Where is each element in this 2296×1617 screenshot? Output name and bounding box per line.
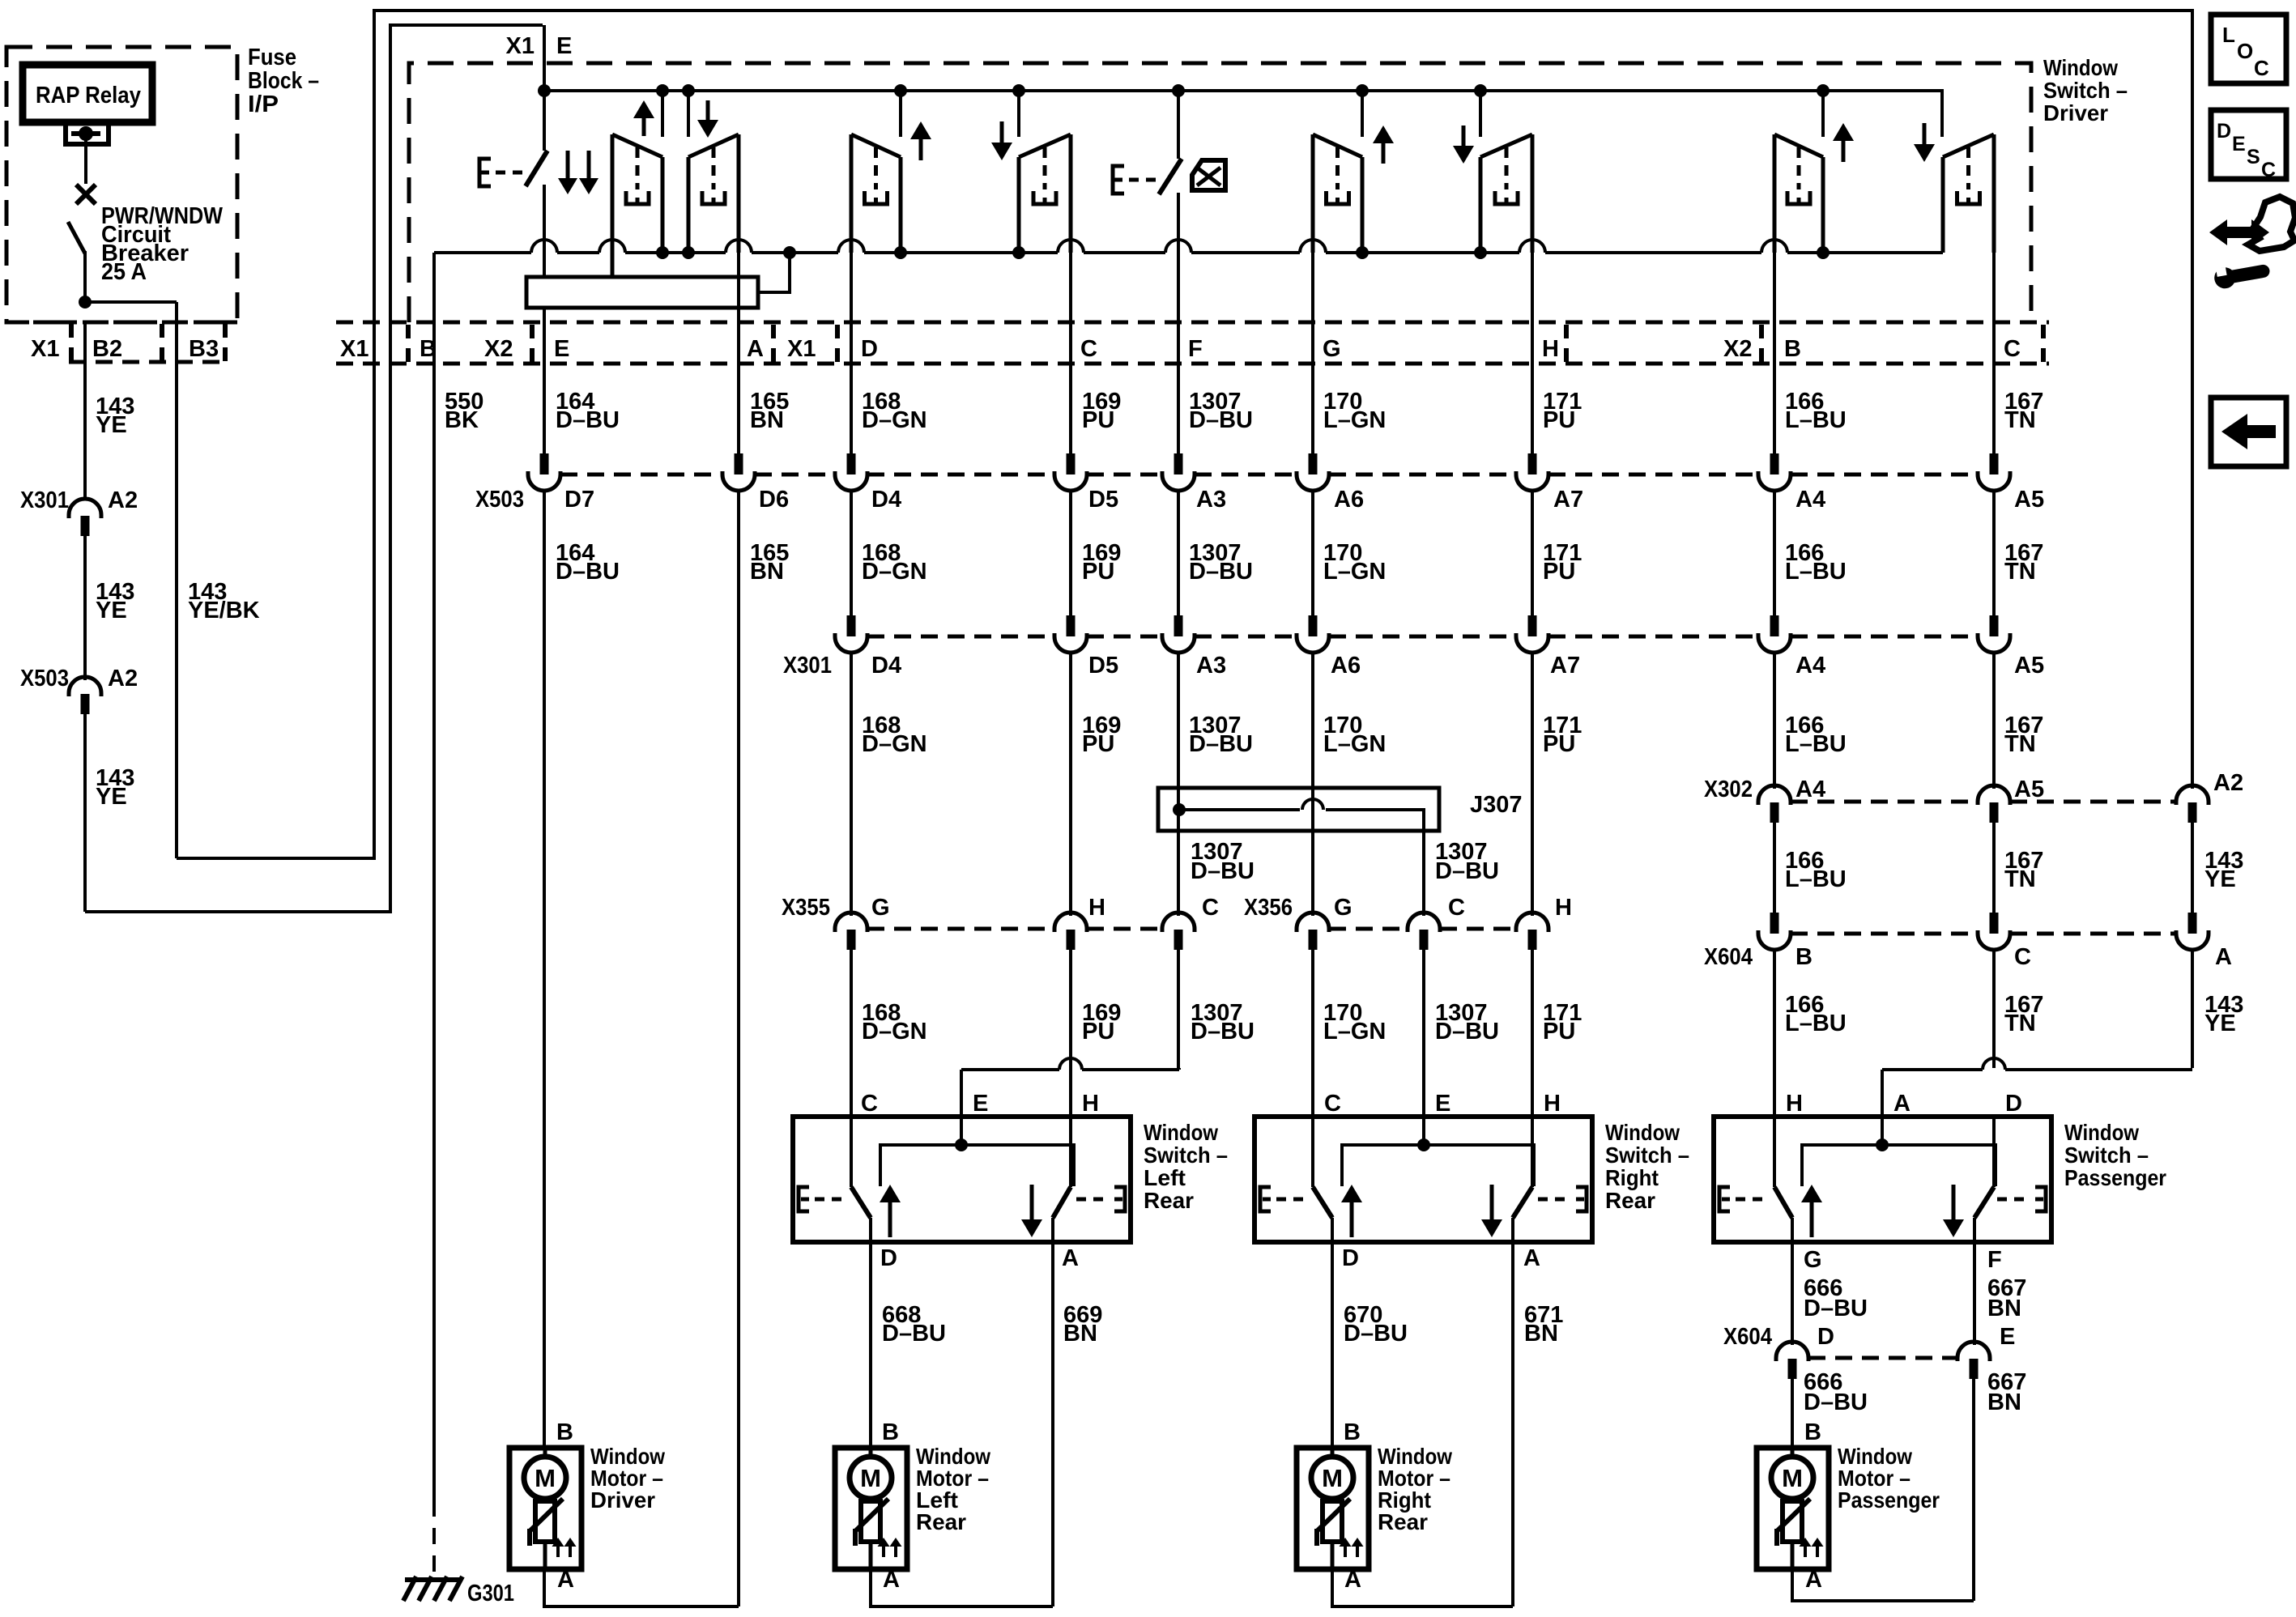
- svg-text:TN: TN: [2004, 407, 2036, 433]
- window motor box: [509, 1448, 581, 1569]
- svg-text:X355: X355: [782, 895, 830, 921]
- svg-text:BN: BN: [750, 407, 784, 433]
- up arrow left-rear: [919, 136, 923, 160]
- svg-text:A: A: [1805, 1567, 1822, 1593]
- sidebar vehicle icon: [2248, 197, 2295, 251]
- svg-text:L: L: [2222, 23, 2235, 47]
- window lockout icon: [1192, 160, 1225, 190]
- svg-text:L–GN: L–GN: [1323, 731, 1386, 757]
- up arrow right-rear: [1382, 140, 1386, 164]
- switch down contact: [1531, 1117, 1534, 1187]
- motor A loop left rear: [871, 1569, 1053, 1606]
- svg-text:C: C: [2261, 159, 2276, 181]
- svg-text:YE: YE: [2204, 866, 2236, 892]
- svg-text:A2: A2: [2213, 770, 2243, 796]
- down arrow passenger: [1923, 123, 1927, 147]
- wires band3b right: [1773, 822, 1776, 913]
- sidebar double arrow: [2209, 219, 2269, 245]
- switch up contact: [1311, 1117, 1314, 1187]
- svg-text:A4: A4: [1795, 487, 1825, 513]
- svg-text:TN: TN: [2004, 1011, 2036, 1036]
- switch up arrow: [888, 1199, 892, 1237]
- wire 143 YE down and right to feed E: [83, 713, 87, 912]
- svg-text:Driver: Driver: [590, 1487, 655, 1513]
- switch linkage brackets: [1260, 1187, 1271, 1211]
- svg-text:O: O: [2237, 39, 2253, 63]
- window symbol plunger: [1335, 147, 1340, 189]
- svg-text:X301: X301: [783, 653, 832, 679]
- svg-text:A7: A7: [1553, 487, 1583, 513]
- svg-text:A: A: [1062, 1245, 1079, 1271]
- svg-text:A3: A3: [1196, 487, 1226, 513]
- window symbol glass outline: [1313, 134, 1362, 157]
- svg-text:PU: PU: [1543, 407, 1575, 433]
- sidebar DESC box: [2211, 110, 2286, 179]
- svg-text:F: F: [1987, 1247, 2002, 1273]
- svg-text:PU: PU: [1082, 1019, 1114, 1045]
- wire 166 to pin B: [1773, 253, 1776, 453]
- wire 667 BN upper: [1973, 1242, 1976, 1345]
- svg-text:D: D: [1342, 1245, 1359, 1271]
- wires band3: [850, 652, 853, 916]
- motor A loop right rear: [1332, 1569, 1513, 1606]
- svg-text:G: G: [871, 895, 890, 921]
- svg-text:X503: X503: [20, 666, 69, 691]
- svg-text:X1: X1: [31, 336, 59, 362]
- svg-text:D–GN: D–GN: [862, 407, 927, 433]
- svg-text:B: B: [1344, 1419, 1361, 1445]
- window symbol plunger: [712, 147, 716, 189]
- svg-text:BN: BN: [1987, 1389, 2021, 1415]
- svg-text:BN: BN: [1524, 1321, 1558, 1347]
- svg-text:B2: B2: [92, 336, 122, 362]
- RAP relay box: [23, 65, 152, 122]
- motor A loop passenger: [1792, 1569, 1974, 1601]
- wire 666 D-BU lower: [1791, 1378, 1794, 1448]
- svg-text:X302: X302: [1704, 777, 1753, 802]
- window symbol glass outline: [1943, 134, 1994, 157]
- wire to B3 pin: [85, 300, 177, 304]
- svg-text:BN: BN: [750, 559, 784, 585]
- svg-text:D: D: [2217, 120, 2231, 143]
- motor arrows: [882, 1543, 885, 1557]
- svg-text:I/P: I/P: [248, 91, 279, 117]
- svg-text:B: B: [882, 1419, 899, 1445]
- svg-text:A: A: [747, 336, 764, 362]
- window symbol glass outline: [1019, 134, 1071, 157]
- svg-text:B: B: [1784, 336, 1801, 362]
- svg-text:A5: A5: [2014, 487, 2044, 513]
- svg-text:BN: BN: [1063, 1321, 1097, 1347]
- svg-text:G: G: [1804, 1247, 1822, 1273]
- svg-text:H: H: [1544, 1091, 1561, 1117]
- svg-text:Block –: Block –: [248, 68, 319, 94]
- svg-text:Rear: Rear: [1378, 1509, 1428, 1534]
- motor thermistor: [1791, 1499, 1795, 1502]
- wire 143 YE from B2: [83, 322, 87, 500]
- window symbol glass outline: [688, 134, 739, 157]
- svg-text:25 A: 25 A: [101, 259, 147, 285]
- svg-text:D: D: [1817, 1324, 1834, 1350]
- junction dot B2/B3: [79, 296, 92, 309]
- wire 168 to pin D: [850, 253, 853, 453]
- svg-text:A6: A6: [1331, 653, 1361, 679]
- svg-text:PU: PU: [1543, 731, 1575, 757]
- motor arrows: [556, 1543, 560, 1557]
- switch box: [1714, 1117, 2051, 1242]
- down arrow right-rear: [1462, 126, 1466, 149]
- svg-text:YE/BK: YE/BK: [188, 598, 260, 623]
- svg-text:A: A: [1344, 1567, 1361, 1593]
- wire 143 YE: [83, 535, 87, 680]
- svg-text:L–BU: L–BU: [1785, 1011, 1847, 1036]
- svg-text:Window: Window: [2043, 55, 2118, 80]
- svg-text:PU: PU: [1543, 1019, 1575, 1045]
- switch goalpost: [880, 1145, 1074, 1186]
- svg-text:Window: Window: [1605, 1120, 1680, 1145]
- svg-text:PU: PU: [1082, 407, 1114, 433]
- svg-text:TN: TN: [2004, 866, 2036, 892]
- svg-text:L–GN: L–GN: [1323, 559, 1386, 585]
- svg-text:X2: X2: [1723, 336, 1752, 362]
- switch down arrow: [1490, 1185, 1494, 1223]
- down arrow left-rear: [1000, 121, 1004, 146]
- connector row X503: [560, 473, 722, 477]
- motor arrows: [1344, 1543, 1347, 1557]
- window symbol plunger: [636, 147, 640, 189]
- switch up arrow: [1350, 1199, 1354, 1237]
- svg-text:D–BU: D–BU: [556, 559, 620, 585]
- window motor box: [835, 1448, 907, 1569]
- switch down contact: [1992, 1117, 1996, 1187]
- wire 666 D-BU upper: [1791, 1242, 1794, 1345]
- svg-text:H: H: [1088, 895, 1105, 921]
- svg-text:Switch –: Switch –: [1605, 1143, 1689, 1168]
- svg-text:A: A: [557, 1567, 574, 1593]
- switch E lockout: [1113, 166, 1124, 194]
- svg-text:B3: B3: [189, 336, 219, 362]
- svg-text:X356: X356: [1244, 895, 1293, 921]
- svg-text:TN: TN: [2004, 559, 2036, 585]
- window symbol plunger: [1797, 147, 1801, 189]
- svg-text:Passenger: Passenger: [2064, 1165, 2166, 1190]
- svg-text:L–BU: L–BU: [1785, 407, 1847, 433]
- switch up arrow: [1810, 1199, 1814, 1237]
- window motor box: [1297, 1448, 1369, 1569]
- svg-text:D–BU: D–BU: [1804, 1389, 1868, 1415]
- switch down arrow: [1030, 1185, 1034, 1223]
- svg-text:X604: X604: [1723, 1324, 1772, 1350]
- svg-text:G301: G301: [467, 1581, 514, 1606]
- window symbol glass outline: [612, 134, 662, 157]
- svg-text:Switch –: Switch –: [1144, 1143, 1228, 1168]
- wire 667 BN lower: [1972, 1378, 1975, 1601]
- svg-text:Rear: Rear: [1144, 1188, 1194, 1213]
- svg-text:H: H: [1082, 1091, 1099, 1117]
- connector row X356: [1329, 927, 1408, 931]
- window symbol glass outline: [851, 134, 901, 157]
- svg-text:PU: PU: [1082, 731, 1114, 757]
- svg-text:Passenger: Passenger: [1838, 1487, 1940, 1513]
- svg-text:D–GN: D–GN: [862, 1019, 927, 1045]
- splice pack J307: [1158, 788, 1439, 831]
- driver switch linkage bar: [526, 277, 758, 308]
- switch box: [1254, 1117, 1592, 1242]
- motor thermistor: [543, 1499, 547, 1502]
- connector X301 A2: [69, 499, 101, 518]
- svg-text:C: C: [1080, 336, 1097, 362]
- switch box: [793, 1117, 1131, 1242]
- switch linkage brackets: [1719, 1187, 1730, 1211]
- svg-text:D5: D5: [1088, 653, 1118, 679]
- switch linkage brackets: [799, 1187, 809, 1211]
- svg-text:Rear: Rear: [1605, 1188, 1655, 1213]
- fuse block I/P dashed box: [6, 47, 237, 322]
- svg-text:Switch –: Switch –: [2064, 1143, 2149, 1168]
- svg-text:YE: YE: [2204, 1011, 2236, 1036]
- switch down contact: [1069, 1117, 1072, 1187]
- up arrow passenger: [1842, 138, 1846, 162]
- feed wire into switch: [543, 25, 546, 91]
- svg-text:X301: X301: [20, 487, 69, 513]
- svg-text:D–GN: D–GN: [862, 731, 927, 757]
- switch up contact: [1773, 1117, 1776, 1187]
- wires band2: [543, 490, 546, 1448]
- motor M circle: [1331, 1448, 1335, 1457]
- window symbol plunger: [1505, 147, 1509, 189]
- svg-text:Fuse: Fuse: [248, 45, 296, 70]
- wire 550 BK to ground: [432, 253, 436, 1500]
- wire 1307 to pin F: [1177, 253, 1180, 453]
- wire 668 D-BU: [869, 1242, 872, 1448]
- motor M circle: [869, 1448, 873, 1457]
- svg-text:B: B: [556, 1419, 573, 1445]
- svg-text:A5: A5: [2014, 653, 2044, 679]
- svg-text:A: A: [2215, 944, 2232, 970]
- motor thermistor: [1331, 1499, 1335, 1502]
- svg-text:L–BU: L–BU: [1785, 866, 1847, 892]
- switch E driver window: [479, 159, 491, 186]
- svg-text:YE: YE: [96, 784, 127, 810]
- svg-text:D: D: [2005, 1091, 2022, 1117]
- svg-text:L–GN: L–GN: [1323, 407, 1386, 433]
- svg-text:E: E: [1435, 1091, 1450, 1117]
- svg-text:D–BU: D–BU: [882, 1321, 946, 1347]
- svg-text:A6: A6: [1334, 487, 1364, 513]
- svg-text:D–BU: D–BU: [1189, 407, 1253, 433]
- connector row X604 upper: [1791, 932, 1978, 936]
- svg-text:M: M: [1782, 1464, 1803, 1492]
- wire 165 to pin A: [737, 253, 740, 453]
- svg-text:S: S: [2247, 146, 2260, 168]
- jog 143 YE to passenger A: [1882, 1068, 1983, 1071]
- svg-text:A: A: [883, 1567, 900, 1593]
- svg-text:D5: D5: [1088, 487, 1118, 513]
- wire relay to breaker: [84, 134, 87, 184]
- driver switch connector row: [336, 321, 2049, 325]
- svg-text:B: B: [1804, 1419, 1821, 1445]
- svg-text:D–BU: D–BU: [1435, 858, 1499, 884]
- wire 169 to pin C: [1069, 253, 1072, 453]
- svg-text:A5: A5: [2014, 777, 2044, 802]
- svg-text:Left: Left: [1144, 1165, 1186, 1190]
- svg-text:D–BU: D–BU: [1189, 731, 1253, 757]
- window symbol glass outline: [1480, 134, 1532, 157]
- svg-text:A4: A4: [1795, 653, 1825, 679]
- svg-text:J307: J307: [1470, 792, 1523, 818]
- jog 1307 to left-rear E: [961, 1068, 1059, 1071]
- wire 143 YE/BK loop to top bus: [177, 11, 2192, 858]
- svg-text:A4: A4: [1795, 777, 1825, 802]
- svg-text:Rear: Rear: [916, 1509, 966, 1534]
- svg-text:A3: A3: [1196, 653, 1226, 679]
- svg-text:L–BU: L–BU: [1785, 559, 1847, 585]
- wire 170 to pin G: [1311, 253, 1314, 453]
- svg-text:Window: Window: [2064, 1120, 2139, 1145]
- switch down arrow: [1952, 1185, 1956, 1223]
- switch goalpost: [1802, 1145, 1996, 1186]
- svg-text:TN: TN: [2004, 731, 2036, 757]
- svg-text:C: C: [2014, 944, 2031, 970]
- svg-text:D–BU: D–BU: [1344, 1321, 1408, 1347]
- svg-text:C: C: [1448, 895, 1465, 921]
- svg-text:A7: A7: [1550, 653, 1580, 679]
- svg-text:E: E: [554, 336, 569, 362]
- svg-text:YE: YE: [96, 412, 127, 438]
- svg-text:D: D: [861, 336, 878, 362]
- svg-text:X503: X503: [475, 487, 524, 513]
- svg-text:D–BU: D–BU: [1191, 858, 1254, 884]
- bottom common bus: [434, 251, 531, 254]
- up arrow driver: [642, 115, 646, 136]
- svg-text:L–BU: L–BU: [1785, 731, 1847, 757]
- svg-text:RAP Relay: RAP Relay: [36, 83, 141, 109]
- svg-text:BK: BK: [445, 407, 479, 433]
- svg-text:C: C: [1202, 895, 1219, 921]
- svg-text:D–BU: D–BU: [556, 407, 620, 433]
- svg-text:D: D: [880, 1245, 897, 1271]
- wire 164 to pin E: [543, 308, 546, 453]
- switch goalpost: [1342, 1145, 1534, 1186]
- svg-text:Switch –: Switch –: [2043, 78, 2128, 103]
- switch up contact: [850, 1117, 853, 1187]
- connector row X355: [867, 927, 1054, 931]
- svg-text:M: M: [535, 1464, 556, 1492]
- svg-text:D–BU: D–BU: [1804, 1296, 1868, 1321]
- svg-text:A: A: [1523, 1245, 1540, 1271]
- window motor box: [1757, 1448, 1829, 1569]
- svg-text:X1: X1: [506, 33, 535, 59]
- svg-text:B: B: [1795, 944, 1813, 970]
- svg-text:Right: Right: [1605, 1165, 1659, 1190]
- connector X503 A2: [69, 677, 101, 696]
- sidebar wrench icon: [2213, 260, 2271, 291]
- svg-text:E: E: [973, 1091, 988, 1117]
- svg-text:X2: X2: [484, 336, 513, 362]
- svg-text:H: H: [1542, 336, 1559, 362]
- svg-text:E: E: [2232, 133, 2246, 155]
- RAP relay contact symbol: [66, 123, 109, 144]
- wire 670 D-BU: [1331, 1242, 1334, 1448]
- svg-text:L–GN: L–GN: [1323, 1019, 1386, 1045]
- svg-text:X1: X1: [787, 336, 816, 362]
- wire 167 to pin C: [1992, 253, 1996, 453]
- svg-text:D7: D7: [564, 487, 594, 513]
- svg-text:G: G: [1323, 336, 1341, 362]
- svg-text:C: C: [2004, 336, 2021, 362]
- svg-text:YE: YE: [96, 598, 127, 623]
- svg-text:B: B: [420, 336, 437, 362]
- svg-text:X1: X1: [340, 336, 368, 362]
- fuse block pin row: [6, 321, 237, 325]
- connector row X301: [867, 635, 1054, 639]
- motor A loop driver: [544, 1569, 739, 1606]
- svg-text:D4: D4: [871, 653, 901, 679]
- wire 671 BN: [1511, 1242, 1514, 1606]
- svg-text:A2: A2: [108, 487, 138, 513]
- top bus: [544, 91, 1942, 137]
- svg-text:D4: D4: [871, 487, 901, 513]
- svg-text:F: F: [1188, 336, 1203, 362]
- svg-text:A: A: [1893, 1091, 1910, 1117]
- svg-text:D6: D6: [759, 487, 789, 513]
- svg-text:C: C: [1324, 1091, 1341, 1117]
- connector row X302: [1791, 800, 1978, 804]
- motor M circle: [1791, 1448, 1795, 1457]
- window symbol plunger: [874, 147, 878, 189]
- window symbol plunger: [1966, 147, 1970, 189]
- wire 669 BN: [1051, 1242, 1054, 1606]
- svg-text:D–BU: D–BU: [1191, 1019, 1254, 1045]
- window symbol glass outline: [1774, 134, 1823, 157]
- down arrow driver: [706, 100, 710, 123]
- svg-text:C: C: [861, 1091, 878, 1117]
- svg-text:PU: PU: [1543, 559, 1575, 585]
- sidebar back arrow box: [2211, 398, 2286, 466]
- wire 171 to pin H: [1531, 253, 1534, 453]
- window symbol plunger: [1043, 147, 1047, 189]
- motor M circle: [543, 1448, 547, 1457]
- svg-text:A2: A2: [108, 666, 138, 691]
- svg-text:Window: Window: [1144, 1120, 1218, 1145]
- PWR/WNDW circuit breaker: [76, 185, 96, 204]
- svg-text:H: H: [1555, 895, 1572, 921]
- svg-text:E: E: [2000, 1324, 2015, 1350]
- window switch driver dashed box: [409, 63, 2031, 322]
- svg-text:PU: PU: [1082, 559, 1114, 585]
- svg-text:D–BU: D–BU: [1435, 1019, 1499, 1045]
- svg-text:BN: BN: [1987, 1296, 2021, 1321]
- double down arrows: [566, 151, 570, 181]
- sidebar LOC box: [2211, 15, 2286, 83]
- svg-text:H: H: [1786, 1091, 1803, 1117]
- svg-text:Driver: Driver: [2043, 100, 2108, 126]
- svg-text:D–BU: D–BU: [1189, 559, 1253, 585]
- wire 143 YE/BK from B3: [175, 322, 178, 858]
- svg-text:M: M: [860, 1464, 881, 1492]
- svg-text:G: G: [1334, 895, 1352, 921]
- svg-text:C: C: [2254, 56, 2269, 80]
- ground G301 symbol: [405, 1577, 460, 1582]
- svg-text:M: M: [1322, 1464, 1343, 1492]
- connector row X604 lower: [1808, 1356, 1957, 1360]
- motor thermistor: [869, 1499, 873, 1502]
- svg-text:D–GN: D–GN: [862, 559, 927, 585]
- svg-text:X604: X604: [1704, 944, 1753, 970]
- wires band4: [850, 949, 853, 1117]
- motor arrows: [1804, 1543, 1807, 1557]
- svg-text:E: E: [556, 33, 572, 59]
